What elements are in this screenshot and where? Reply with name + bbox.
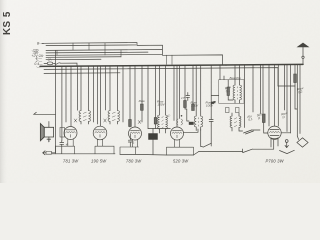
electrolytic C6	[189, 122, 194, 125]
wire drop x148	[147, 66, 149, 129]
wire drop x226	[225, 64, 227, 67]
wire S2 out	[253, 140, 274, 149]
wire drop x253	[252, 65, 254, 112]
transformer Tr1 primary winding	[233, 85, 241, 100]
wire net -110 row	[46, 51, 148, 54]
svg-text:4·: 4·	[66, 143, 69, 147]
indicator arrow under V5	[285, 140, 288, 143]
wire net U row2	[46, 44, 136, 47]
wire drop x88.5	[88, 66, 90, 110]
heater loop V3	[120, 140, 139, 155]
wire box stub	[212, 95, 219, 97]
heater loop V4	[167, 140, 194, 155]
capacitor C2	[128, 134, 132, 147]
wire drop x100.5	[100, 66, 102, 126]
wire drop x260.5	[260, 65, 262, 114]
wire row I right link	[278, 85, 295, 87]
wire drop x185	[184, 65, 186, 100]
svg-text:KS 5: KS 5	[2, 11, 13, 35]
cable chevron	[280, 150, 295, 153]
wire drop x155.5	[155, 66, 157, 118]
wire drop x278.3	[277, 65, 279, 126]
node tick x89	[88, 43, 90, 50]
wire drop x211.2	[210, 65, 212, 117]
wire drop x269	[268, 65, 270, 126]
wire speaker leads	[48, 122, 50, 142]
wire drop x135	[134, 66, 136, 127]
wire drop x93.5	[93, 66, 95, 122]
antenna connector	[302, 56, 304, 58]
switch S2	[243, 149, 253, 152]
resistor R2	[154, 118, 157, 125]
switch S1	[244, 130, 254, 134]
wire switch link2	[201, 129, 203, 147]
wire L2 leads down	[110, 122, 118, 125]
node tick x105	[104, 43, 106, 55]
wire L1 leads down	[81, 122, 89, 125]
chassis bus	[40, 64, 303, 66]
wire R1 lead	[141, 110, 143, 122]
wire speaker lead vertical	[55, 50, 57, 146]
node tick x172	[171, 55, 173, 64]
node J1	[181, 115, 183, 117]
wire heater row I	[44, 68, 278, 86]
tube V2 RF stage	[93, 126, 107, 140]
svg-text:B·—: B·—	[37, 42, 44, 46]
heater leads V5	[271, 139, 278, 147]
wire net +4 row	[46, 58, 101, 60]
wire R6 leads	[228, 81, 233, 100]
wire net -220 row	[46, 49, 162, 52]
node tick x57	[56, 50, 58, 55]
wire diamond lead	[297, 136, 298, 140]
wire drop x179.5	[179, 65, 181, 118]
wire drop x200.7	[200, 65, 202, 116]
wire drop x117.5	[117, 66, 119, 111]
node X1 cross mark	[74, 119, 77, 122]
resistor R7	[294, 74, 297, 83]
heater loop V1	[56, 139, 75, 154]
wire V5 to right	[281, 132, 290, 134]
terminal block TB1	[226, 108, 230, 113]
electrolytic C4	[149, 134, 158, 140]
svg-text:2A: 2A	[47, 58, 52, 62]
wire Tr2 leads	[232, 113, 243, 131]
wire drop x235	[234, 65, 236, 85]
svg-text:190 5W: 190 5W	[91, 158, 107, 163]
wire S1 out	[252, 129, 261, 131]
resistor R4	[192, 104, 195, 111]
wire R5 lead	[264, 123, 268, 134]
wire drop x239.5	[239, 65, 241, 85]
phone plug arrow	[34, 112, 56, 114]
capacitor C1	[209, 118, 213, 127]
wire drop x284.5	[284, 65, 286, 110]
wire drop x142	[141, 66, 143, 104]
node tick x121	[120, 50, 122, 57]
switch S5	[203, 143, 211, 147]
wire drop x244.5	[244, 65, 246, 128]
capacitor C5	[186, 93, 190, 101]
resistor R3	[184, 101, 187, 108]
wire drop x81	[80, 66, 82, 110]
wire Tr1 winding leads	[235, 100, 240, 103]
wire drop x274.5	[274, 65, 276, 126]
wire fuse squiggle	[54, 63, 60, 64]
wire drop x300	[299, 64, 301, 133]
wire net -A row	[46, 56, 121, 59]
node X2 cross mark	[104, 119, 107, 122]
tube V1 RF stage	[64, 127, 77, 140]
tube V3 detector	[129, 127, 142, 140]
wire drop x71	[70, 66, 72, 126]
wire drop x123	[122, 66, 124, 122]
wire R2 leads	[155, 124, 157, 129]
wire drop x177	[176, 65, 178, 127]
coil L1 IF transformer 1	[79, 111, 90, 122]
paper texture	[0, 0, 320, 183]
coil L3 IF transformer 3	[158, 115, 168, 129]
wire drop x130	[129, 66, 131, 127]
wire drop x290.5	[290, 65, 292, 134]
terminal block	[46, 151, 52, 154]
wire drop x61.9	[61, 66, 63, 140]
speaker magnet mark	[47, 139, 51, 142]
wire drop x97.5	[97, 66, 99, 124]
resistor R10	[129, 120, 132, 127]
coil L2 IF transformer 2	[108, 111, 119, 122]
svg-text:1·: 1·	[133, 141, 136, 145]
svg-text:Row: Row	[139, 99, 146, 103]
wire drop x295	[294, 64, 296, 74]
wire drop x174	[173, 65, 175, 120]
node X3 cross mark	[138, 120, 141, 123]
wire C1 down	[210, 126, 212, 146]
wire net +A row	[46, 53, 162, 56]
wire mid link1	[148, 128, 170, 130]
svg-text:520 3W: 520 3W	[173, 158, 189, 163]
resistor R5 500	[262, 114, 265, 123]
terminal block TB2	[236, 108, 240, 113]
transformer Tr2 secondary winding	[230, 116, 241, 128]
svg-text:·—: ·—	[36, 65, 41, 69]
wire C4 leads	[152, 129, 154, 155]
speaker LS cone	[44, 127, 53, 137]
wire drop x105.5	[105, 66, 107, 110]
fuse Si	[47, 62, 53, 65]
transformer Tr1 shield box	[219, 80, 244, 104]
wire rail segment 2	[120, 153, 194, 156]
wire drop x193	[192, 65, 194, 104]
wire net B staircase	[42, 43, 223, 65]
svg-text:1·: 1·	[168, 114, 171, 118]
wire drop x165.5	[165, 65, 167, 115]
wire terminal arrow	[43, 151, 46, 155]
wire drop x287	[286, 65, 288, 132]
wire R7 leads	[295, 83, 297, 110]
wire bottom rail left	[52, 146, 56, 153]
tube V4 AF stage	[171, 127, 184, 140]
wire S3 out	[199, 149, 243, 153]
capacitor C3	[60, 141, 64, 154]
wire drop x110	[109, 66, 111, 111]
coil L5 grid curl	[177, 119, 183, 125]
coil L4 detector coil	[194, 116, 202, 127]
antenna symbol	[298, 43, 309, 47]
wire fuse row	[44, 63, 77, 66]
resistor R6 inside box	[227, 87, 230, 96]
wire heater row J	[44, 72, 120, 75]
wire drop x297.3	[296, 64, 298, 136]
switch S3	[194, 152, 199, 156]
svg-text:Beachte: Beachte	[230, 76, 242, 80]
wire drop x66	[65, 66, 67, 122]
wire drop x77.5	[77, 66, 79, 110]
node tick x166.5	[166, 55, 168, 64]
wire drop x159.5	[159, 65, 161, 115]
wire R3R4 link	[185, 108, 189, 122]
antenna mast	[302, 47, 304, 65]
wire drop x220	[219, 65, 221, 80]
tube V5 output pentode	[268, 126, 281, 139]
wire rail segment 1	[52, 153, 115, 155]
svg-text:P700 3W: P700 3W	[266, 158, 285, 163]
wire box top leads	[224, 76, 228, 81]
svg-text:780 3W: 780 3W	[126, 158, 142, 163]
wire drop x263	[262, 65, 264, 114]
wire L4 leads down	[196, 127, 201, 131]
svg-text:17: 17	[181, 96, 185, 100]
resistor R1 20k	[141, 104, 144, 110]
wire drop x196.2	[195, 65, 197, 116]
heater loop V2	[95, 139, 114, 154]
node tick x73	[72, 43, 74, 50]
wire V4 anode right	[184, 129, 198, 132]
resistor R9 left of V1	[60, 128, 65, 138]
wire L3 leads down	[160, 129, 166, 133]
svg-text:781 3W: 781 3W	[63, 158, 79, 163]
pickup jack diamond	[297, 138, 308, 147]
